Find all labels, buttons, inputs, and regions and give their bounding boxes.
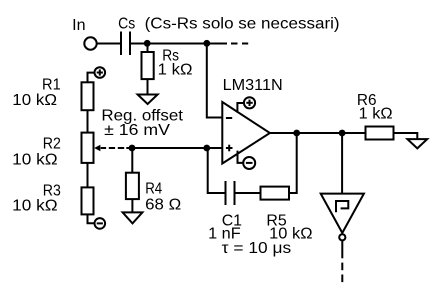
capacitor C1 <box>226 181 235 205</box>
wire R2 to R3 <box>87 163 89 188</box>
svg-text:LM311N: LM311N <box>223 77 283 94</box>
wire node F to noninverting input <box>207 147 222 149</box>
node D junction output <box>339 130 346 137</box>
resistor R3 <box>82 187 94 214</box>
wire node A to node B <box>147 43 207 45</box>
svg-text:68 Ω: 68 Ω <box>145 197 181 214</box>
dashed wiper wire <box>101 147 130 149</box>
node A junction <box>144 40 151 47</box>
resistor R6 <box>366 127 394 140</box>
wire Rs to ground <box>147 79 149 94</box>
wire inverter output stub <box>341 240 343 258</box>
wire node E to R4 <box>131 148 133 173</box>
wire In to Cs <box>97 43 120 45</box>
supply circle minus of R3 <box>95 218 106 229</box>
resistor Rs <box>142 52 154 79</box>
wire R4 to ground <box>131 199 133 212</box>
resistor R4 <box>126 173 139 199</box>
svg-text:R4: R4 <box>145 181 162 198</box>
svg-text:(Cs-Rs solo se necessari): (Cs-Rs solo se necessari) <box>145 16 340 33</box>
positive supply circle of U1 <box>244 97 255 108</box>
node B junction <box>203 40 210 47</box>
resistor R5 <box>261 187 290 200</box>
svg-text:1 kΩ: 1 kΩ <box>158 62 193 79</box>
inverting input minus sign <box>226 117 232 119</box>
potentiometer wiper arrow <box>94 145 100 152</box>
wire node E to node F <box>132 147 207 149</box>
svg-text:Cs: Cs <box>118 16 135 33</box>
wire R1 to R2 <box>87 110 89 132</box>
svg-text:1 kΩ: 1 kΩ <box>359 106 393 123</box>
noninverting input plus sign <box>226 145 233 152</box>
ground below Rs <box>138 95 158 105</box>
capacitor Cs <box>121 32 130 56</box>
wire node A to Rs <box>147 44 149 53</box>
op-amp U1 LM311N triangle <box>222 102 270 164</box>
svg-text:τ = 10 μs: τ = 10 μs <box>222 240 292 257</box>
wire C1 to node F <box>208 148 225 193</box>
negative supply circle of U1 <box>243 157 255 169</box>
wire R3 to supply minus <box>88 214 95 223</box>
wire R6 to ground <box>394 133 418 139</box>
svg-text:10 kΩ: 10 kΩ <box>12 92 57 109</box>
inverter output bubble <box>339 234 345 240</box>
resistor R2 potentiometer body <box>82 133 94 163</box>
hysteresis symbol <box>336 201 348 212</box>
node F junction noninverting <box>203 145 210 152</box>
svg-text:In: In <box>72 17 85 34</box>
ground below R6 <box>407 139 427 148</box>
wire Cs to node A <box>131 43 147 45</box>
wire op-amp output <box>270 132 366 134</box>
inverter Schmitt trigger triangle <box>321 194 364 233</box>
dashed wire below inverter <box>341 263 343 283</box>
svg-text:10 kΩ: 10 kΩ <box>12 152 57 169</box>
supply circle plus of R1 <box>95 67 106 78</box>
node C junction output <box>293 130 300 137</box>
wire node B to inverting input <box>207 44 222 118</box>
node E junction wiper <box>129 145 136 152</box>
svg-text:R2: R2 <box>43 136 61 153</box>
ground below R4 <box>123 212 143 223</box>
resistor R1 <box>82 82 94 110</box>
svg-text:± 16 mV: ± 16 mV <box>104 122 170 139</box>
input terminal In <box>84 37 96 49</box>
wire stub to negative supply <box>238 151 244 163</box>
wire node C down to feedback <box>289 133 297 193</box>
wire node D to inverter <box>341 133 343 194</box>
wire R5 to C1 <box>236 192 261 194</box>
svg-text:10 kΩ: 10 kΩ <box>12 198 57 215</box>
wire stub to positive supply <box>237 103 244 113</box>
wire supply to R1 <box>88 73 95 83</box>
wire node B solid stub right <box>207 43 227 45</box>
wire dashed continuation <box>231 43 248 45</box>
